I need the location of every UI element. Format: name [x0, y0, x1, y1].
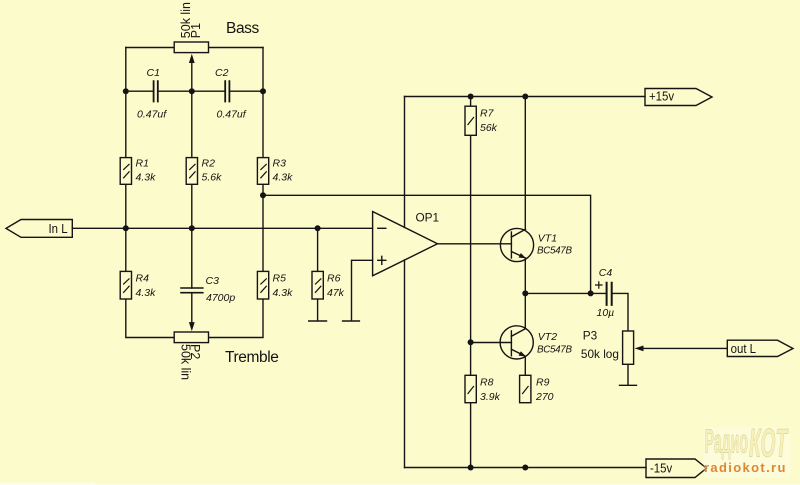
svg-text:R3: R3	[273, 157, 287, 169]
svg-text:5.6k: 5.6k	[202, 172, 223, 184]
svg-text:OP1: OP1	[416, 210, 440, 224]
svg-text:R4: R4	[136, 273, 150, 285]
svg-text:-15v: -15v	[650, 461, 673, 476]
svg-text:Bass: Bass	[226, 20, 260, 37]
svg-text:C2: C2	[215, 67, 229, 79]
svg-text:Радио: Радио	[705, 424, 749, 460]
svg-text:C3: C3	[206, 275, 220, 287]
svg-text:R8: R8	[480, 377, 494, 389]
svg-text:4.3k: 4.3k	[136, 287, 157, 299]
svg-text:4.3k: 4.3k	[273, 172, 294, 184]
svg-text:+15v: +15v	[649, 89, 675, 104]
svg-text:270: 270	[535, 391, 554, 403]
svg-text:VT1: VT1	[538, 233, 557, 245]
svg-text:BC547B: BC547B	[537, 345, 572, 356]
svg-text:R5: R5	[273, 273, 287, 285]
svg-text:P1: P1	[189, 23, 203, 38]
svg-text:50k log: 50k log	[581, 347, 619, 361]
svg-text:50k lin: 50k lin	[178, 344, 192, 380]
svg-text:0.47uf: 0.47uf	[137, 109, 167, 121]
svg-text:R6: R6	[327, 273, 341, 285]
svg-text:3.9k: 3.9k	[480, 391, 501, 403]
svg-text:BC547B: BC547B	[537, 246, 572, 257]
svg-text:10µ: 10µ	[597, 307, 615, 319]
svg-text:47k: 47k	[327, 287, 345, 299]
svg-text:P3: P3	[583, 329, 598, 343]
svg-text:0.47uf: 0.47uf	[217, 109, 247, 121]
svg-text:R7: R7	[480, 108, 495, 120]
svg-text:4.3k: 4.3k	[136, 172, 157, 184]
svg-text:VT2: VT2	[538, 331, 557, 343]
svg-text:out L: out L	[731, 341, 757, 356]
svg-text:C1: C1	[147, 67, 160, 79]
svg-text:56k: 56k	[480, 122, 498, 134]
svg-text:4.3k: 4.3k	[273, 287, 294, 299]
svg-text:КОТ: КОТ	[749, 421, 789, 466]
svg-text:C4: C4	[599, 267, 613, 279]
svg-text:4700p: 4700p	[206, 292, 235, 304]
svg-text:Tremble: Tremble	[225, 349, 278, 366]
svg-text:R1: R1	[136, 157, 149, 169]
svg-text:In L: In L	[49, 221, 68, 236]
svg-text:R9: R9	[536, 377, 550, 389]
svg-text:radiokot.ru: radiokot.ru	[704, 460, 787, 475]
svg-text:R2: R2	[202, 157, 216, 169]
